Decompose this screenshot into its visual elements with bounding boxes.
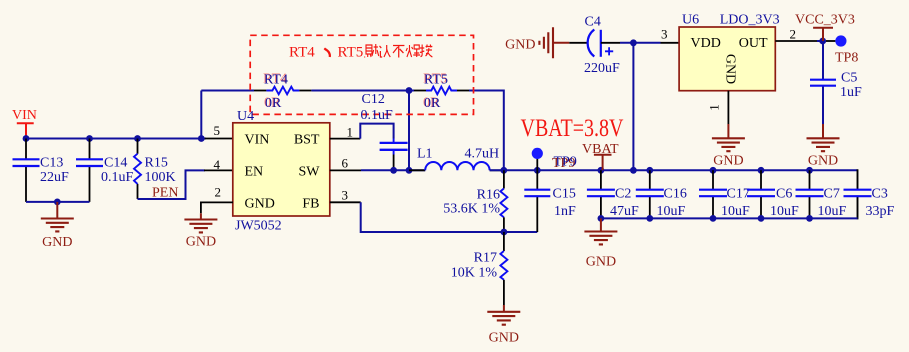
- resistor R15: [134, 139, 176, 200]
- wire RT4 row left: [201, 90, 254, 92]
- wire SW node to L1: [361, 169, 425, 171]
- wire FB pin3 stub: [330, 201, 361, 203]
- junction FB divider node: [501, 229, 508, 236]
- svg-text:6: 6: [342, 156, 349, 171]
- capacitor C17: [699, 170, 750, 219]
- svg-text:C13: C13: [40, 156, 63, 171]
- svg-text:SW: SW: [299, 165, 321, 180]
- svg-text:RT5: RT5: [338, 45, 364, 61]
- IC U4 JW5052 body: [233, 109, 330, 234]
- svg-text:U6: U6: [682, 12, 699, 27]
- ground GND C5: [807, 124, 840, 168]
- svg-text:VIN: VIN: [12, 108, 37, 123]
- wire EN pin stub: [204, 169, 233, 171]
- svg-text:C16: C16: [664, 187, 687, 202]
- svg-text:1uF: 1uF: [840, 85, 862, 100]
- wire FB to divider node: [361, 202, 538, 232]
- wire BST to C12: [360, 124, 393, 139]
- wire OUT to VCC node: [817, 40, 823, 42]
- note ideographic comma: [324, 48, 330, 57]
- svg-text:2: 2: [790, 27, 797, 42]
- wire C4 node riser to VBAT rail: [632, 43, 634, 171]
- capacitor C3: [844, 187, 895, 220]
- svg-text:VDD: VDD: [691, 36, 721, 51]
- wire output rail: [490, 169, 858, 171]
- svg-text:BST: BST: [294, 133, 320, 148]
- capacitor C12: [361, 92, 408, 155]
- svg-text:33pF: 33pF: [866, 204, 895, 219]
- junction output rail dots: [500, 167, 812, 174]
- test point TP9: [532, 148, 577, 171]
- wire pin5 stub: [205, 138, 234, 140]
- wire L1 pin leads: [409, 169, 506, 171]
- wire C12 to SW node: [393, 155, 395, 171]
- svg-text:GND: GND: [586, 254, 616, 269]
- svg-text:VBAT=3.8V: VBAT=3.8V: [521, 115, 624, 142]
- ground GND U4 pin2: [184, 213, 217, 249]
- wire bottom rail: [601, 217, 858, 219]
- capacitor C2: [587, 170, 639, 219]
- junction ground link: [54, 199, 61, 206]
- svg-text:10K 1%: 10K 1%: [451, 265, 498, 280]
- svg-text:RT4: RT4: [264, 72, 288, 87]
- junction riser/SW node: [406, 167, 413, 174]
- wire VDD pin3 stub: [661, 42, 680, 44]
- svg-text:EN: EN: [245, 165, 264, 180]
- svg-text:4.7uH: 4.7uH: [465, 147, 500, 162]
- svg-text:VCC_3V3: VCC_3V3: [795, 12, 855, 27]
- wire BST pin1 stub: [330, 138, 361, 140]
- wire U4 pin2 to ground: [201, 202, 233, 213]
- junction bottom rail dots: [598, 215, 813, 222]
- ground GND C2: [584, 218, 617, 269]
- wire C3 top lead: [857, 169, 859, 189]
- capacitor C4 (polarized): [569, 15, 620, 76]
- svg-text:3: 3: [342, 188, 349, 203]
- power port VBAT: [582, 142, 619, 171]
- note text CJK 认: [380, 45, 391, 57]
- note text CJK 不: [393, 46, 404, 58]
- wire riser RT4/RT5 node to SW: [408, 91, 410, 171]
- svg-text:5: 5: [214, 123, 221, 138]
- svg-text:0.1uF: 0.1uF: [101, 170, 134, 185]
- ground GND C4 (horizontal): [505, 27, 569, 58]
- svg-text:22uF: 22uF: [40, 170, 69, 185]
- wire R15 to EN pin: [138, 170, 206, 199]
- capacitor C7: [796, 170, 847, 219]
- note text CJK 接: [420, 45, 432, 58]
- svg-text:GND: GND: [245, 197, 275, 212]
- svg-text:C17: C17: [727, 187, 750, 202]
- note text CJK 焊: [406, 45, 420, 57]
- svg-text:100K: 100K: [145, 170, 176, 185]
- ground GND U6 pin1: [712, 124, 745, 168]
- svg-text:53.6K 1%: 53.6K 1%: [443, 202, 500, 217]
- svg-text:C14: C14: [104, 156, 127, 171]
- svg-text:10uF: 10uF: [721, 204, 750, 219]
- svg-text:GND: GND: [42, 235, 72, 250]
- note text CJK 默: [364, 44, 378, 57]
- wire riser VIN rail to RT4 row: [200, 91, 202, 139]
- resistor RT4: [254, 72, 311, 112]
- ground GND R17: [487, 305, 520, 346]
- junction VCC node: [819, 38, 826, 45]
- svg-text:R16: R16: [477, 188, 500, 203]
- svg-text:C5: C5: [841, 70, 857, 85]
- svg-text:GND: GND: [489, 331, 519, 346]
- capacitor C13: [13, 139, 70, 202]
- wire U6 pin1 to ground: [727, 91, 729, 124]
- resistor R16: [443, 170, 507, 232]
- inductor L1: [417, 147, 499, 171]
- svg-text:L1: L1: [417, 147, 433, 162]
- wire C13-C14 bottom link: [26, 201, 90, 203]
- svg-text:C12: C12: [362, 92, 385, 107]
- svg-text:GND: GND: [713, 153, 743, 168]
- svg-text:1: 1: [707, 104, 722, 111]
- svg-text:C3: C3: [872, 187, 888, 202]
- svg-text:GND: GND: [808, 153, 838, 168]
- svg-text:47uF: 47uF: [610, 204, 639, 219]
- svg-text:C4: C4: [585, 15, 601, 30]
- power port VIN: [12, 108, 37, 139]
- svg-text:VIN: VIN: [245, 133, 270, 148]
- svg-text:FB: FB: [302, 197, 319, 212]
- svg-text:0.1uF: 0.1uF: [361, 108, 394, 123]
- junction C12/SW node: [390, 167, 397, 174]
- ground GND input caps: [41, 202, 74, 250]
- svg-text:2: 2: [215, 185, 222, 200]
- svg-text:R17: R17: [474, 251, 497, 266]
- test point TP8: [826, 35, 858, 65]
- svg-text:RT5: RT5: [424, 72, 448, 87]
- svg-text:LDO_3V3: LDO_3V3: [720, 12, 780, 27]
- svg-text:C15: C15: [553, 187, 576, 202]
- svg-text:GND: GND: [186, 234, 216, 249]
- resistor R17: [451, 232, 508, 305]
- svg-text:4: 4: [214, 157, 221, 172]
- wire VIN rail: [26, 138, 206, 140]
- svg-text:220uF: 220uF: [584, 61, 620, 76]
- capacitor C6: [747, 170, 799, 219]
- annotation dashed box RT4 RT5 note: [250, 35, 473, 114]
- svg-text:C7: C7: [824, 187, 840, 202]
- svg-text:JW5052: JW5052: [235, 219, 282, 234]
- svg-text:GND: GND: [723, 54, 738, 84]
- svg-text:R15: R15: [145, 156, 168, 171]
- svg-text:TP9: TP9: [554, 155, 577, 170]
- IC U6 LDO_3V3 body: [679, 12, 779, 90]
- wire RT4 to RT5: [311, 90, 414, 92]
- svg-text:0R: 0R: [424, 96, 441, 111]
- capacitor C15: [524, 170, 576, 232]
- svg-text:U4: U4: [237, 109, 254, 124]
- wire SW pin6 stub: [330, 169, 361, 171]
- capacitor C5: [810, 41, 862, 124]
- svg-text:TP8: TP8: [835, 50, 858, 65]
- svg-text:VBAT: VBAT: [582, 142, 619, 157]
- svg-text:RT4: RT4: [289, 45, 315, 61]
- wire OUT pin2 stub: [775, 40, 817, 42]
- capacitor C16: [636, 170, 687, 219]
- svg-text:3: 3: [661, 27, 668, 42]
- svg-text:GND: GND: [505, 38, 535, 53]
- capacitor C14: [76, 139, 134, 202]
- svg-text:C6: C6: [776, 187, 792, 202]
- wire C4 to U6 VDD: [620, 42, 661, 44]
- junction VIN rail dots: [23, 135, 205, 142]
- resistor RT5: [414, 72, 469, 112]
- svg-text:C2: C2: [615, 187, 631, 202]
- junction RT4/RT5 node: [406, 87, 413, 94]
- svg-text:0R: 0R: [265, 96, 282, 111]
- power port VCC_3V3: [795, 12, 855, 41]
- wire RT5 to output node: [469, 91, 504, 171]
- svg-text:10uF: 10uF: [818, 204, 847, 219]
- svg-text:OUT: OUT: [739, 36, 768, 51]
- svg-text:10uF: 10uF: [657, 204, 686, 219]
- svg-text:1nF: 1nF: [554, 204, 576, 219]
- svg-text:1: 1: [347, 125, 354, 140]
- junction C4 node: [630, 39, 637, 46]
- svg-text:10uF: 10uF: [770, 204, 799, 219]
